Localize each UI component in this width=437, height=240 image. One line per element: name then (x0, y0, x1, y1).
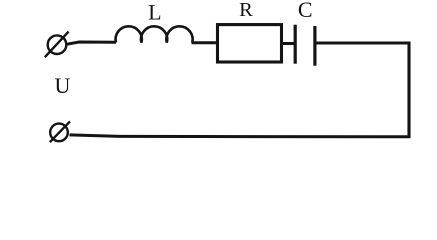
wire: bottom return (70, 135, 411, 137)
inductor L (116, 26, 193, 42)
resistor R (218, 25, 282, 62)
wire: right vertical (407, 42, 410, 139)
svg-text:L: L (148, 0, 161, 25)
svg-text:R: R (239, 0, 253, 21)
capacitor C plate 2 (313, 26, 316, 66)
svg-text:U: U (55, 73, 71, 98)
wire: top terminal to inductor (66, 42, 116, 44)
capacitor C plate 1 (294, 25, 297, 64)
terminal T1 (top input) (45, 32, 69, 58)
wire: inductor to resistor (192, 41, 218, 44)
svg-text:C: C (298, 0, 313, 22)
terminal T2 (bottom input) (50, 121, 70, 142)
wire: capacitor to right corner (316, 42, 410, 45)
wire: resistor to capacitor (283, 42, 294, 45)
